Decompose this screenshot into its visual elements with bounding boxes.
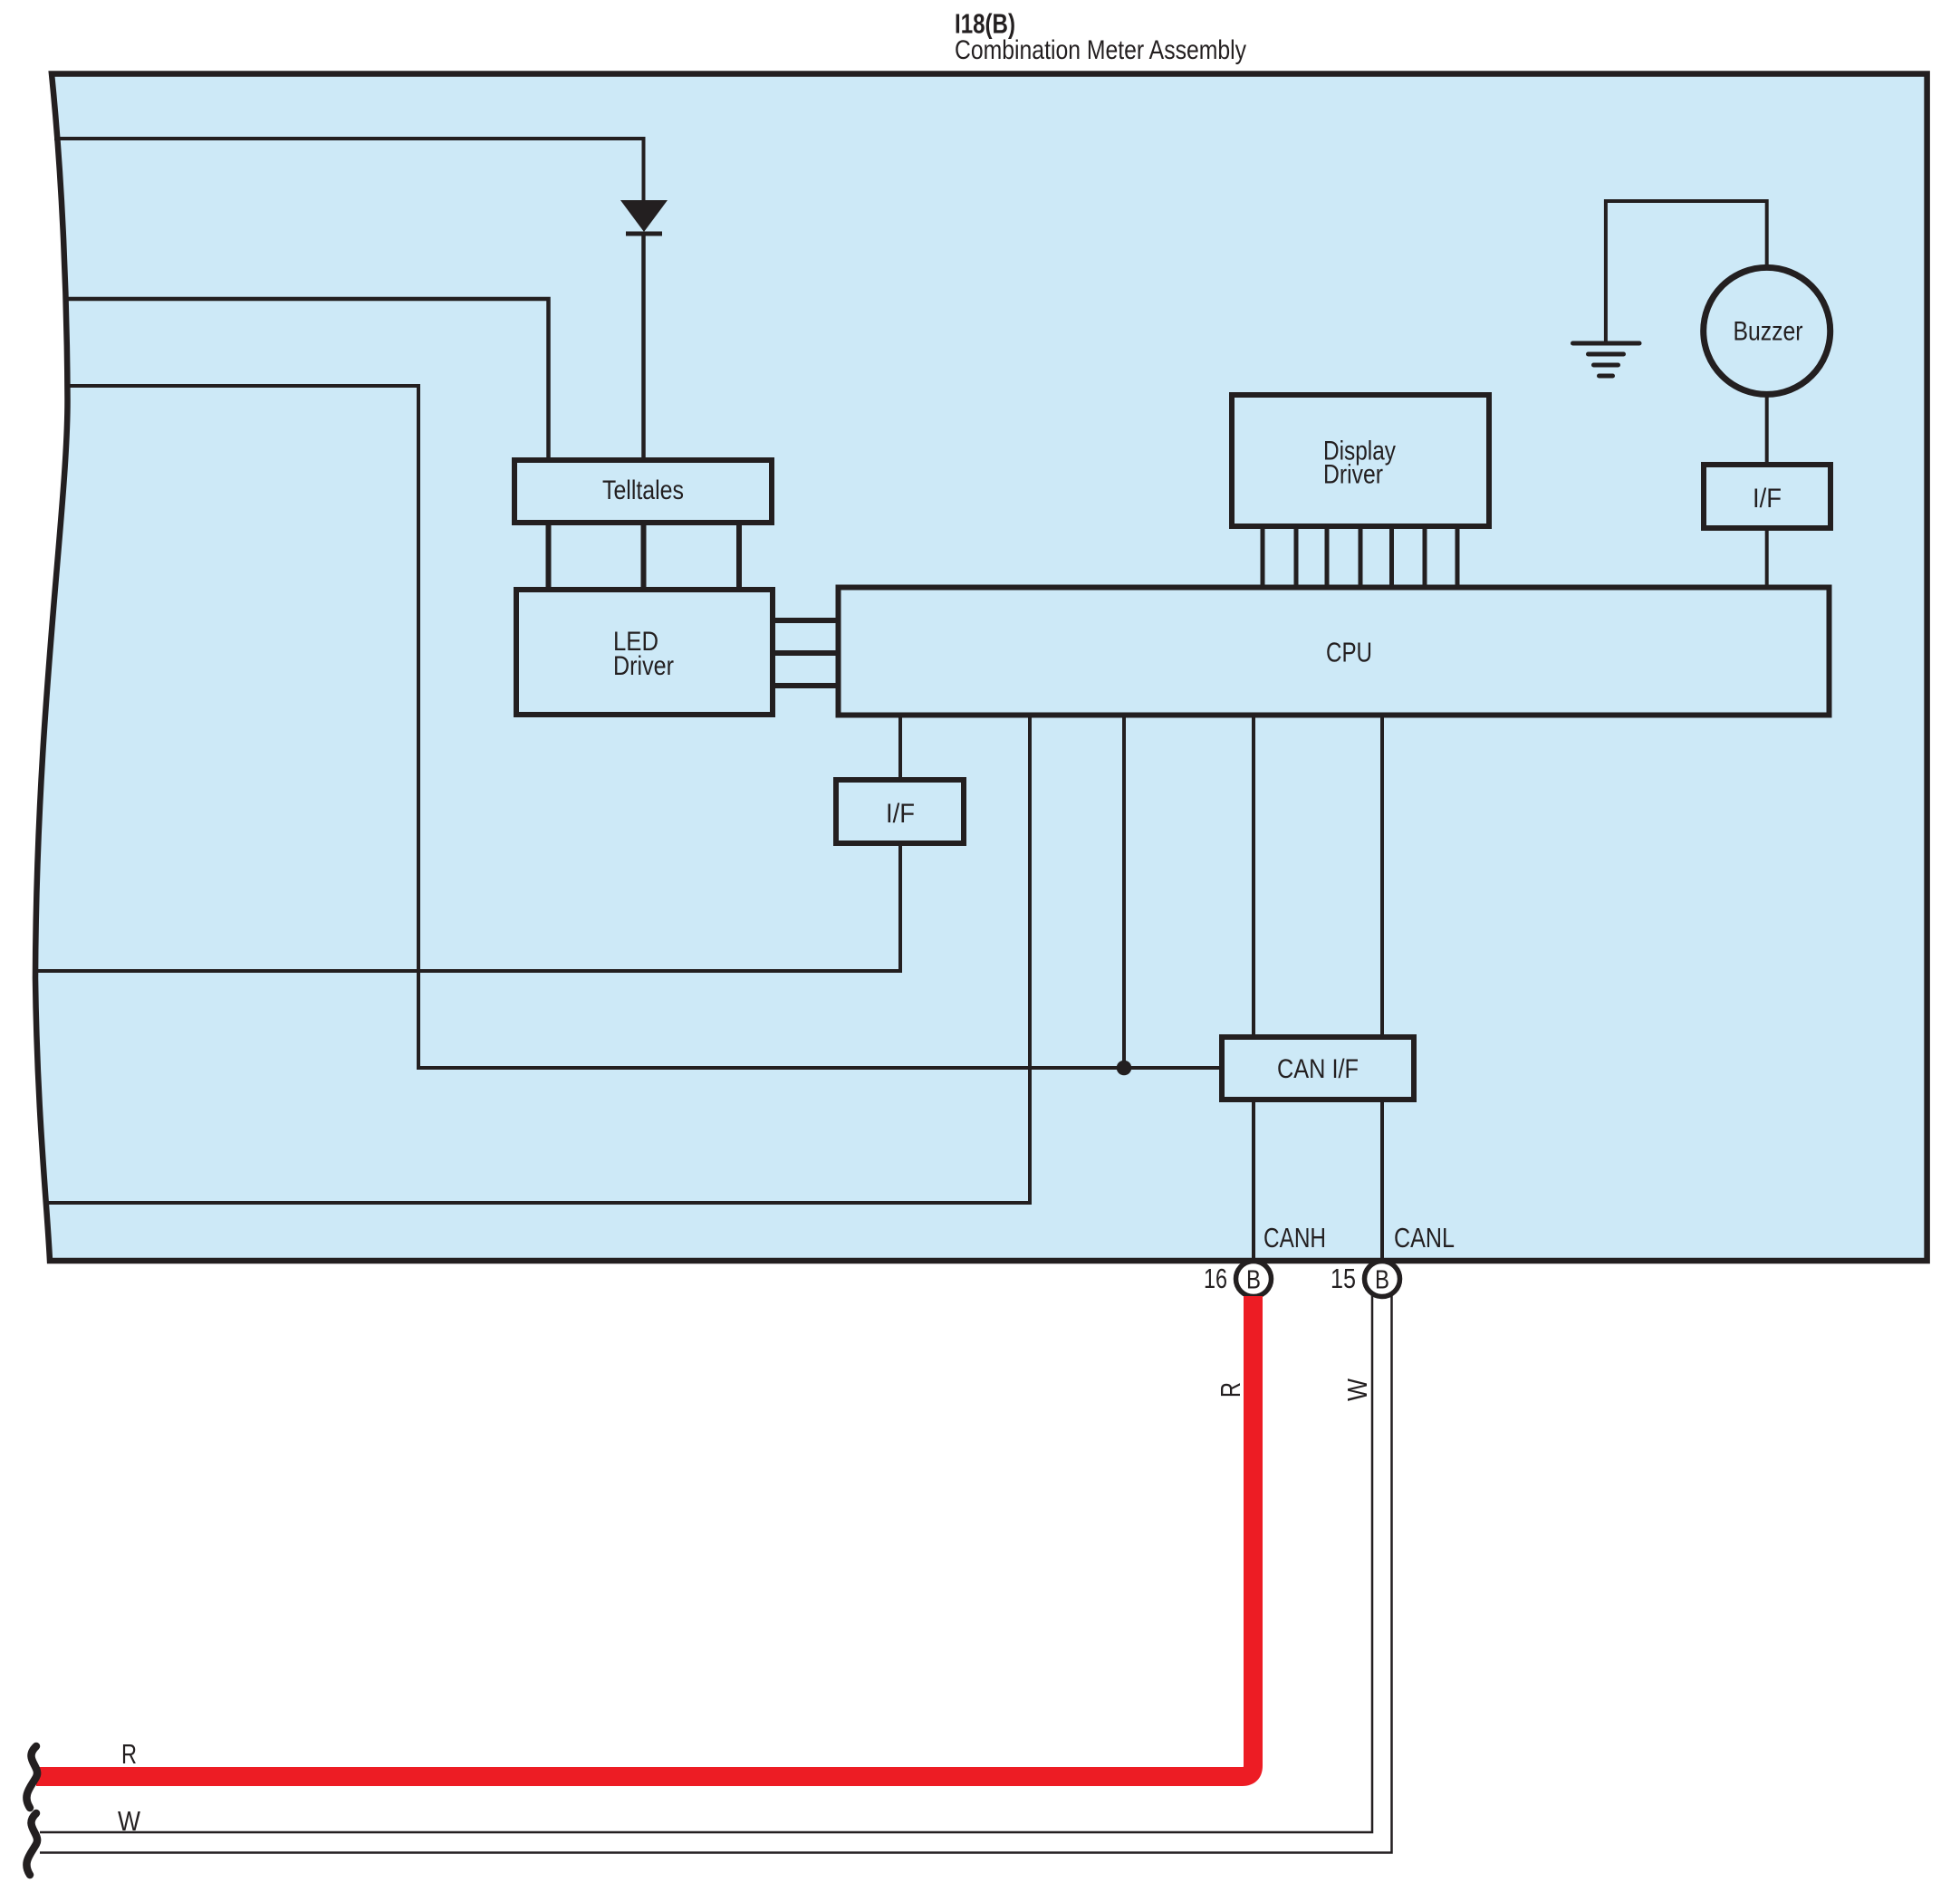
svg-text:W: W <box>118 1805 141 1837</box>
wire CANH CAN I/F to pin 16 <box>1252 1100 1255 1262</box>
wire CPU to left edge (lower signal) <box>43 716 1030 1203</box>
block Telltales <box>514 460 772 523</box>
svg-text:B: B <box>1246 1266 1261 1295</box>
svg-text:15: 15 <box>1331 1263 1356 1294</box>
wire illumination feed from left edge to Telltales <box>64 299 549 460</box>
svg-text:16: 16 <box>1204 1263 1227 1294</box>
Display Driver pin 3 to CPU <box>1325 526 1330 587</box>
wire CANL CPU to CAN I/F <box>1380 716 1384 1037</box>
block LED Driver <box>516 590 773 715</box>
wire buzzer to I/F (buzzer interface) <box>1765 394 1769 465</box>
wire W (CANL harness, white) outline <box>40 1295 1392 1853</box>
svg-text:CPU: CPU <box>1326 637 1372 668</box>
harness break symbol on W wire <box>26 1813 37 1875</box>
block Display Driver <box>1232 395 1489 526</box>
block CPU <box>839 588 1830 716</box>
ground symbol <box>1573 343 1640 376</box>
pin 15 connector circle B <box>1365 1262 1400 1297</box>
bus LED Driver to CPU line 3 <box>773 683 837 688</box>
wire I/F to left edge (sensor input) <box>34 843 900 971</box>
svg-text:R: R <box>121 1738 137 1770</box>
svg-text:Buzzer: Buzzer <box>1734 317 1803 347</box>
block I/F (buzzer interface) <box>1704 465 1830 528</box>
svg-text:B: B <box>1375 1266 1389 1295</box>
Display Driver pin 4 to CPU <box>1359 526 1363 587</box>
svg-text:Driver: Driver <box>1323 460 1383 490</box>
wire CANH CPU to CAN I/F <box>1252 716 1255 1037</box>
Display Driver pin 6 to CPU <box>1423 526 1427 587</box>
svg-text:Telltales: Telltales <box>602 475 684 505</box>
pin 16 connector circle B <box>1236 1262 1272 1297</box>
Display Driver pin 1 to CPU <box>1261 526 1265 587</box>
connector body I18(B) Combination Meter Assembly (blue outline box) <box>35 74 1927 1262</box>
block CAN I/F <box>1222 1037 1414 1100</box>
svg-text:W: W <box>1341 1378 1373 1401</box>
wire CPU down to CAN junction <box>1122 716 1126 1068</box>
block I/F (meter input interface) <box>836 780 964 843</box>
wire R (CANH harness, red) <box>36 1296 1254 1777</box>
svg-text:R: R <box>1215 1382 1246 1398</box>
svg-text:I/F: I/F <box>1753 484 1782 514</box>
bus LED Driver to CPU line 1 <box>773 618 837 623</box>
buzzer <box>1704 267 1830 394</box>
svg-text:I/F: I/F <box>886 799 915 829</box>
svg-text:CAN I/F: CAN I/F <box>1277 1054 1359 1084</box>
svg-text:CANL: CANL <box>1394 1222 1455 1254</box>
diode D (telltale power) <box>620 200 668 234</box>
wire diode cathode down to Telltales <box>641 234 646 460</box>
Display Driver pin 2 to CPU <box>1294 526 1299 587</box>
wire Telltales to LED Driver lead 1 <box>546 523 552 590</box>
wire CPU to I/F (LED section) <box>898 716 902 781</box>
svg-text:CANH: CANH <box>1263 1222 1326 1254</box>
svg-text:Driver: Driver <box>613 651 674 681</box>
wire CANL CAN I/F to pin 15 <box>1380 1100 1384 1262</box>
wire battery feed from left edge to diode <box>54 139 644 202</box>
wire I/F to CPU (buzzer drive) <box>1765 528 1769 587</box>
bus LED Driver to CPU line 2 <box>773 650 837 656</box>
Display Driver pin 7 to CPU <box>1456 526 1460 587</box>
wire CAN enable from left edge to CAN I/F <box>66 386 1221 1068</box>
wire buzzer high side to ground drop <box>1606 201 1767 341</box>
wire Telltales to LED Driver lead 3 <box>736 523 742 590</box>
junction dot on CAN enable wire <box>1117 1061 1132 1076</box>
wire Telltales to LED Driver lead 2 <box>641 523 647 590</box>
svg-text:Combination Meter Assembly: Combination Meter Assembly <box>955 35 1246 65</box>
harness break symbol on R wire <box>26 1746 37 1808</box>
Display Driver pin 5 to CPU <box>1389 526 1394 587</box>
